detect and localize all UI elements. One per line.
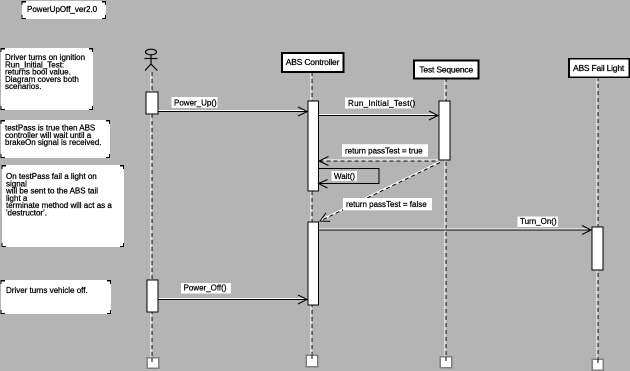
activation bar Test Sequence: [439, 101, 450, 160]
actor figure: [145, 49, 158, 70]
lifeline end box actor: [147, 358, 159, 369]
activation bar ABS Controller #1: [308, 101, 319, 191]
svg-text:Turn_On(): Turn_On(): [520, 217, 557, 226]
note 3: On testPass fail: [2, 165, 124, 247]
return message passTest = true: [319, 144, 439, 165]
note 4: Driver turns vehicle off: [1, 280, 111, 314]
svg-text:scenarios.: scenarios.: [5, 82, 41, 91]
self message Wait(): [319, 169, 380, 189]
svg-text:'destructor'.: 'destructor'.: [6, 209, 47, 218]
svg-text:Power_Up(): Power_Up(): [174, 98, 217, 107]
lifeline end box ABS Fail Light: [592, 359, 603, 370]
svg-text:Power_Off(): Power_Off(): [184, 284, 227, 293]
object header ABS Fail Light: [569, 59, 630, 77]
svg-text:Run_Initial_Test(): Run_Initial_Test(): [348, 99, 416, 108]
lifeline end box ABS Controller: [306, 355, 318, 367]
object lifeline Test Sequence (dashed): [445, 78, 446, 362]
svg-text:ABS Fail Light: ABS Fail Light: [573, 63, 625, 73]
svg-text:Test Sequence: Test Sequence: [419, 65, 473, 75]
return message passTest = false (diagonal): [320, 162, 440, 222]
message Turn_On(): [319, 217, 591, 235]
svg-text:PowerUpOff_ver2.0: PowerUpOff_ver2.0: [27, 5, 98, 14]
svg-text:return passTest = true: return passTest = true: [345, 146, 423, 155]
activation bar actor #1: [146, 92, 158, 114]
svg-text:brakeOn signal is received.: brakeOn signal is received.: [5, 138, 102, 147]
note 1: Driver turns on ignition: [1, 48, 93, 110]
note 2: testPass is true: [1, 120, 110, 158]
activation bar actor #2: [147, 280, 158, 312]
svg-text:Wait(): Wait(): [334, 172, 355, 181]
activation bar ABS Fail Light: [592, 227, 603, 270]
object lifeline ABS Controller (dashed): [311, 72, 312, 361]
svg-text:Driver turns vehicle off.: Driver turns vehicle off.: [6, 286, 88, 295]
actor lifeline (dashed): [151, 72, 152, 363]
object header ABS Controller: [282, 53, 344, 72]
object header Test Sequence: [414, 61, 479, 79]
svg-text:ABS Controller: ABS Controller: [286, 57, 340, 67]
lifeline end box Test Sequence: [440, 357, 452, 368]
message Power_Up(): [159, 97, 308, 116]
message Power_Off(): [159, 283, 308, 304]
title note PowerUpOff_ver2.0: [22, 1, 106, 19]
object lifeline ABS Fail Light (dashed): [597, 77, 598, 364]
activation bar ABS Controller #2: [308, 222, 319, 305]
svg-text:return passTest = false: return passTest = false: [346, 200, 427, 209]
message Run_Initial_Test(): [319, 98, 438, 121]
